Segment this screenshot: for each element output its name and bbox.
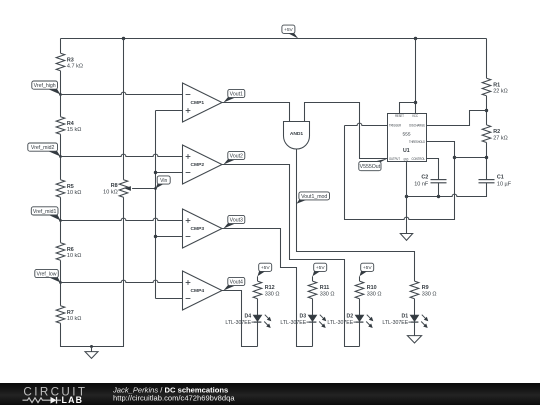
svg-text:CONTROL: CONTROL <box>412 157 426 161</box>
svg-text:OUTPUT: OUTPUT <box>389 157 400 161</box>
junction rail-555vcc <box>414 37 417 40</box>
junction Vin-CMP2 <box>154 171 157 174</box>
svg-text:LTL-307EE: LTL-307EE <box>225 320 251 326</box>
junction discharge <box>485 109 488 112</box>
svg-text:R4: R4 <box>67 121 74 127</box>
ground ladder <box>85 352 98 359</box>
svg-text:Vref_mid1: Vref_mid1 <box>33 209 57 215</box>
svg-text:R12: R12 <box>265 285 275 291</box>
svg-text:R6: R6 <box>67 247 74 253</box>
svg-text:Vout3: Vout3 <box>230 217 243 223</box>
svg-text:10 kΩ: 10 kΩ <box>67 190 82 196</box>
wire Vref_mid1 row <box>61 218 183 220</box>
wire threshold tap <box>455 157 487 159</box>
wire Vref_high row <box>61 92 183 94</box>
wire DISCHARGE jog <box>427 111 487 126</box>
wire GND stem <box>406 162 408 234</box>
resistor R11 <box>308 281 317 299</box>
svg-text:R7: R7 <box>67 310 74 316</box>
wire R4-Vref_mid2 <box>60 134 62 156</box>
wire Vout1 to AND <box>222 103 290 122</box>
wire D2 cathode <box>359 322 361 346</box>
wire R1-R2 <box>486 96 488 125</box>
led D3 <box>308 315 317 321</box>
svg-text:Vout1_mod: Vout1_mod <box>301 194 327 200</box>
op-amp CMP2 <box>183 145 223 184</box>
svg-text:+5V: +5V <box>261 265 271 271</box>
svg-text:R9: R9 <box>422 285 429 291</box>
wire R7 span <box>60 283 62 306</box>
svg-text:D1: D1 <box>402 313 409 319</box>
svg-text:D3: D3 <box>300 313 307 319</box>
junction R2-C1 <box>485 156 488 159</box>
svg-text:R5: R5 <box>67 184 74 190</box>
junction ground tap <box>90 345 93 348</box>
svg-text:+5V: +5V <box>284 27 294 33</box>
wire ground stem left <box>91 347 93 352</box>
wire D1 cathode <box>414 322 416 336</box>
svg-text:555: 555 <box>402 131 410 137</box>
wire AND input right <box>305 103 388 159</box>
svg-text:Vref_low: Vref_low <box>37 271 57 277</box>
ground D1 <box>407 336 421 343</box>
wire RESET jog <box>400 103 416 114</box>
ground 555 <box>400 234 412 241</box>
node Vref_mid1 <box>48 214 61 220</box>
svg-text:330 Ω: 330 Ω <box>422 292 437 298</box>
wire R3-Vref_high <box>60 71 62 95</box>
op-amp CMP3 <box>183 209 223 248</box>
resistor R2 <box>482 125 491 143</box>
capacitor C2 <box>431 179 447 181</box>
wire trigger-threshold loop <box>345 126 455 220</box>
svg-text:10 kΩ: 10 kΩ <box>67 316 82 322</box>
wire D3 top <box>312 276 314 281</box>
junction Vin-wiper <box>154 187 157 190</box>
wire R5 span <box>60 157 62 180</box>
junction C2 bottom <box>437 195 440 198</box>
wire R10-D2 <box>359 299 361 315</box>
svg-text:Vref_mid2: Vref_mid2 <box>31 145 55 151</box>
svg-text:10 nF: 10 nF <box>414 182 429 188</box>
svg-text:22 kΩ: 22 kΩ <box>493 89 508 95</box>
resistor R12 <box>253 281 262 299</box>
wire rail-pot <box>123 39 125 180</box>
svg-text:15 kΩ: 15 kΩ <box>67 127 82 133</box>
svg-text:10 kΩ: 10 kΩ <box>67 253 82 259</box>
node Vout2 <box>224 159 237 165</box>
wire R12-D4 <box>257 299 259 315</box>
svg-text:4.7 kΩ: 4.7 kΩ <box>67 64 83 70</box>
op-amp CMP1 <box>183 83 223 122</box>
node Vout1 <box>224 97 237 103</box>
svg-text:Vout2: Vout2 <box>230 153 243 159</box>
wire Vref_mid2 row <box>61 154 183 156</box>
svg-text:+5V: +5V <box>316 265 326 271</box>
node Vref_mid2 <box>47 151 61 157</box>
svg-text:DISCHARGE: DISCHARGE <box>409 124 425 128</box>
junction reset-vcc <box>414 101 417 104</box>
svg-text:RESET: RESET <box>395 114 404 118</box>
wire D4 top <box>257 276 259 281</box>
capacitor C1 <box>479 179 495 181</box>
svg-text:TRIGGER: TRIGGER <box>389 124 401 128</box>
wire +5V top rail <box>61 38 487 40</box>
wire Vin vertical <box>156 111 183 299</box>
wire R4 span <box>60 95 62 117</box>
node Vout1_mod <box>297 199 309 204</box>
wire R11-D3 <box>312 299 314 315</box>
svg-text:U1: U1 <box>403 148 410 154</box>
logo resistor squiggle <box>23 398 51 403</box>
wire C2 bottom <box>438 183 440 197</box>
svg-text:CMP2: CMP2 <box>191 162 205 168</box>
svg-text:LTL-307EE: LTL-307EE <box>280 320 306 326</box>
wire R2-C1 <box>486 143 488 180</box>
svg-text:10 kΩ: 10 kΩ <box>103 190 118 196</box>
svg-text:CMP3: CMP3 <box>191 226 205 232</box>
svg-text:R3: R3 <box>67 57 74 63</box>
resistor R9 <box>410 281 419 299</box>
led D4 <box>253 315 262 321</box>
node Vout4 <box>224 285 237 291</box>
node +5V rail <box>287 33 298 39</box>
resistor R1 <box>482 78 491 96</box>
svg-text:R11: R11 <box>320 285 330 291</box>
resistor R4 <box>56 117 65 135</box>
wire Vout2 run <box>222 165 360 347</box>
wire TRIGGER <box>345 123 388 125</box>
svg-text:330 Ω: 330 Ω <box>320 292 335 298</box>
wire R5-Vref_mid1 <box>60 197 62 220</box>
junction gnd pin <box>405 195 408 198</box>
wire AND output <box>297 149 415 281</box>
op-amp CMP4 <box>183 271 223 310</box>
wire D3 cathode <box>312 322 314 346</box>
svg-text:GND: GND <box>404 158 409 162</box>
svg-text:R1: R1 <box>493 82 500 88</box>
resistor R6 <box>56 243 65 261</box>
svg-text:R8: R8 <box>111 183 118 189</box>
svg-text:LTL-307EE: LTL-307EE <box>327 320 353 326</box>
svg-text:VCC: VCC <box>412 114 418 118</box>
svg-text:Vin: Vin <box>160 178 167 184</box>
svg-text:D2: D2 <box>347 313 354 319</box>
wire CONTROL-C2 <box>427 159 439 180</box>
junction rail-pot <box>122 37 125 40</box>
junction threshold-tap <box>453 156 456 159</box>
node Vout3 <box>224 223 237 229</box>
led D2 <box>355 315 364 321</box>
svg-text:Vref_high: Vref_high <box>34 83 56 89</box>
svg-text:R10: R10 <box>367 285 377 291</box>
junction Vin-CMP3 <box>154 235 157 238</box>
node V555Out <box>372 159 388 163</box>
node +5V D4 <box>258 271 267 277</box>
wire Vref_low row <box>61 280 183 282</box>
node Vin <box>156 184 165 189</box>
node Vref_low <box>48 277 61 283</box>
svg-text:C1: C1 <box>497 174 504 180</box>
svg-text:http://circuitlab.com/c472h69b: http://circuitlab.com/c472h69bv8dqa <box>113 394 235 403</box>
logo diode <box>51 397 57 404</box>
resistor R5 <box>56 180 65 198</box>
resistor R3 <box>56 53 65 71</box>
svg-text:LAB: LAB <box>62 395 84 405</box>
node Vref_high <box>47 89 61 95</box>
ic U1 555 box <box>388 114 427 162</box>
wire D2 top <box>359 276 361 281</box>
wire R6 span <box>60 221 62 243</box>
wire C1 bottom <box>407 183 487 197</box>
svg-text:CMP4: CMP4 <box>191 288 205 294</box>
svg-text:10 µF: 10 µF <box>497 182 512 188</box>
svg-text:+5V: +5V <box>363 265 373 271</box>
svg-text:CMP1: CMP1 <box>191 100 205 106</box>
and-gate AND1 <box>284 122 310 150</box>
svg-text:LTL-307EE: LTL-307EE <box>382 320 408 326</box>
potentiometer R8 <box>119 180 128 198</box>
wire R6-Vref_low <box>60 260 62 282</box>
svg-text:27 kΩ: 27 kΩ <box>493 135 508 141</box>
wire ladder top lead <box>60 39 62 54</box>
wire D4 cathode <box>257 322 259 346</box>
svg-text:Vout4: Vout4 <box>230 279 243 285</box>
svg-text:AND1: AND1 <box>290 131 304 137</box>
svg-text:330 Ω: 330 Ω <box>367 292 382 298</box>
svg-text:C2: C2 <box>421 174 428 180</box>
svg-text:THRESHOLD: THRESHOLD <box>409 140 425 144</box>
node +5V D2 <box>360 271 369 277</box>
node +5V D3 <box>313 271 322 277</box>
wire R9-D1 <box>414 299 416 315</box>
resistor R7 <box>56 306 65 324</box>
svg-text:V555Out: V555Out <box>360 164 381 170</box>
wire Vout4 run <box>222 291 258 347</box>
wire Vout3 run <box>222 229 313 347</box>
wire VCC drop <box>415 39 417 114</box>
svg-text:330 Ω: 330 Ω <box>265 292 280 298</box>
svg-text:Vout1: Vout1 <box>230 91 243 97</box>
led D1 <box>410 315 419 321</box>
wire rail right drop <box>486 39 488 79</box>
svg-text:D4: D4 <box>245 313 252 319</box>
wire ladder bottom <box>61 197 124 346</box>
resistor R10 <box>355 281 364 299</box>
svg-text:R2: R2 <box>493 129 500 135</box>
